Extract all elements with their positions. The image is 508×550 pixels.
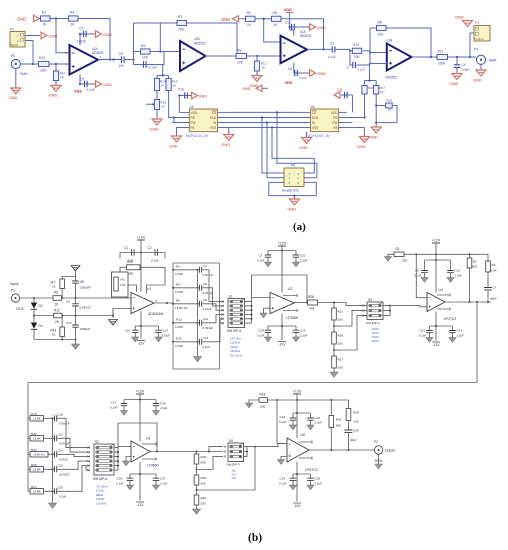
svg-text:5to 10Hz: 5to 10Hz	[230, 353, 243, 357]
wire clamp bottom line	[34, 339, 76, 341]
ground flag at C1	[310, 24, 327, 30]
svg-text:390: 390	[128, 272, 133, 276]
ground below C13	[155, 337, 163, 342]
svg-text:2.2uF: 2.2uF	[455, 274, 463, 278]
capacitor C30 40pF bottom	[345, 429, 359, 451]
svg-text:C9: C9	[66, 300, 70, 304]
svg-text:C28: C28	[117, 477, 123, 481]
wire U5 pin3 ground	[277, 457, 287, 465]
capacitor C9 0.047uF	[66, 298, 91, 316]
capacitor C18 0.001uF	[52, 413, 70, 426]
svg-text:0.1uF: 0.1uF	[203, 345, 211, 349]
svg-text:R4: R4	[70, 11, 74, 15]
power -12V under U4	[432, 342, 440, 347]
wire input stage1	[20, 63, 69, 65]
capacitor C30 0.1uF	[52, 486, 67, 499]
svg-text:P4: P4	[11, 54, 15, 58]
svg-text:PB: PB	[191, 116, 195, 120]
svg-text:R2: R2	[247, 11, 251, 15]
svg-text:GND: GND	[317, 71, 326, 76]
resistor R25 13.8K	[28, 463, 55, 472]
ground below C10	[131, 337, 139, 342]
svg-text:C13: C13	[420, 329, 426, 333]
svg-text:C3: C3	[259, 254, 263, 258]
op-amp U4 OP27CZ	[427, 288, 456, 321]
wire U5 output	[309, 449, 374, 451]
resistor R2 1K	[246, 11, 256, 27]
svg-text:-12V: -12V	[278, 343, 286, 347]
earth ground above C6	[71, 266, 80, 277]
svg-text:RCA: RCA	[375, 459, 383, 463]
svg-text:0.001uF: 0.001uF	[59, 422, 70, 426]
resistor R16 1K	[362, 86, 374, 95]
svg-text:SMA: SMA	[489, 59, 497, 63]
svg-text:100nF: 100nF	[77, 40, 86, 44]
resistor R5 7.5K trim	[112, 272, 129, 297]
svg-text:U6: U6	[311, 105, 315, 109]
ground below R17	[330, 372, 339, 378]
resistor R3 13.8K	[172, 265, 199, 276]
node feedback-junction stage1	[55, 17, 111, 60]
wire ladder1 junction bus	[197, 270, 199, 357]
svg-text:0.1uF: 0.1uF	[358, 68, 366, 72]
svg-text:0.1uF: 0.1uF	[116, 482, 124, 486]
resistor R20a 200	[194, 470, 206, 491]
capacitor C11 0.033uF	[197, 317, 214, 330]
svg-text:RCA: RCA	[17, 307, 25, 311]
svg-text:0.1uF: 0.1uF	[87, 88, 95, 92]
svg-text:GND: GND	[299, 146, 308, 150]
ground below C17	[120, 411, 128, 416]
svg-text:200: 200	[260, 405, 265, 409]
svg-text:C6: C6	[80, 280, 84, 284]
svg-text:820: 820	[336, 424, 341, 428]
svg-text:Input: Input	[11, 43, 18, 47]
svg-text:LF356N: LF356N	[286, 316, 299, 320]
resistor R18 200	[259, 393, 349, 409]
resistor R22 13.8K	[28, 432, 55, 441]
ground below U5 left	[169, 128, 182, 149]
capacitor C7 40pF	[484, 286, 497, 303]
capacitor C28 0.1uF under U3	[116, 474, 133, 486]
svg-text:VSS: VSS	[312, 126, 318, 130]
resistor R12 2K	[54, 309, 63, 325]
wire tap R26-R20 to S4	[197, 457, 224, 470]
svg-text:C21: C21	[58, 433, 64, 437]
capacitor C9 0.01uF	[197, 298, 212, 311]
ground below R17 R19	[369, 123, 381, 140]
resistor R17 100	[332, 350, 344, 372]
svg-text:u2B: u2B	[194, 37, 200, 41]
resistor R8 10K feedback stage4	[377, 21, 387, 37]
wire digital pot bus	[226, 111, 365, 177]
svg-text:2.2uF: 2.2uF	[457, 334, 465, 338]
svg-text:CS: CS	[212, 111, 216, 115]
svg-text:U5: U5	[301, 433, 305, 437]
schematic part (b)	[10, 236, 497, 515]
svg-text:2.2uF: 2.2uF	[160, 406, 168, 410]
svg-text:R13: R13	[353, 43, 359, 47]
op-amp U3 LF356N	[131, 437, 159, 468]
svg-text:SW DIP-3: SW DIP-3	[366, 321, 380, 325]
ground below C3	[264, 262, 272, 267]
svg-text:+12V: +12V	[137, 236, 146, 240]
svg-text:R12: R12	[54, 309, 60, 313]
ground flag at C10	[192, 92, 208, 98]
svg-text:u1B: u1B	[387, 39, 393, 43]
svg-text:GND: GND	[288, 208, 297, 212]
power +12V at U3	[124, 390, 156, 442]
capacitor C37 2.2uF under U3	[153, 474, 168, 486]
ground flag GND at P2	[41, 32, 58, 38]
resistor R21 820 bottom	[329, 400, 342, 450]
wire U2 negative supply	[268, 314, 296, 341]
resistor R24 390 gain	[127, 260, 141, 276]
capacitor C13 2.2uF under U2	[293, 326, 308, 338]
resistor R7 10K feedback	[177, 15, 187, 32]
svg-text:2.2uF: 2.2uF	[315, 482, 323, 486]
resistor R1 200 feedback	[394, 247, 488, 263]
ground below C5	[421, 278, 429, 283]
svg-text:R4: R4	[176, 283, 180, 287]
svg-text:GND: GND	[221, 17, 230, 22]
svg-text:C30: C30	[353, 429, 359, 433]
svg-text:R17: R17	[338, 358, 344, 362]
svg-text:C16: C16	[315, 416, 321, 420]
resistor R1	[41, 11, 51, 27]
svg-text:MCP41010_1N: MCP41010_1N	[186, 134, 208, 138]
resistor R28 499	[308, 295, 362, 311]
ground below P3	[473, 64, 486, 82]
resistor R17 1K	[374, 86, 386, 95]
svg-text:0.1uF: 0.1uF	[419, 334, 427, 338]
resistor R4 4.3K	[486, 254, 497, 287]
svg-text:200: 200	[402, 259, 407, 263]
wire U1 pin3 to ground	[109, 309, 132, 326]
wire input main line	[20, 297, 131, 299]
svg-text:VEE: VEE	[285, 80, 293, 85]
ground below U6	[299, 132, 312, 150]
capacitor C9 0.1uF	[79, 78, 95, 93]
svg-text:R26: R26	[201, 455, 207, 459]
svg-text:R5: R5	[141, 44, 145, 48]
resistor R13 10K series stage4	[352, 43, 362, 59]
wire U4 output	[445, 301, 491, 303]
svg-text:D1: D1	[39, 304, 43, 308]
svg-text:GND: GND	[450, 81, 459, 86]
svg-text:C4: C4	[203, 264, 207, 268]
svg-text:R3: R3	[176, 265, 180, 269]
capacitor C1 0.1uF	[285, 21, 309, 31]
svg-text:GND: GND	[49, 34, 58, 39]
wire U4 negative supply	[430, 312, 453, 341]
svg-text:S4: S4	[229, 439, 233, 443]
svg-text:1K: 1K	[380, 90, 384, 94]
wire stage4 RC input	[349, 28, 387, 65]
wire U5 inverting input	[277, 400, 287, 444]
caption (a)	[293, 221, 306, 233]
svg-text:1K: 1K	[52, 285, 56, 289]
svg-text:24k: 24k	[232, 476, 237, 480]
ground below C35	[152, 411, 160, 416]
svg-text:C14: C14	[457, 329, 463, 333]
wire stage2 output	[206, 55, 259, 57]
svg-text:C2: C2	[79, 27, 83, 31]
svg-text:R6: R6	[176, 299, 180, 303]
svg-text:GND: GND	[357, 145, 366, 149]
svg-text:C37: C37	[160, 477, 166, 481]
svg-text:GND: GND	[455, 15, 464, 20]
svg-text:100: 100	[338, 366, 343, 370]
svg-text:0.01uF: 0.01uF	[203, 307, 212, 311]
svg-text:0.001uF: 0.001uF	[203, 273, 214, 277]
capacitor C26 0.033uF	[52, 464, 70, 477]
svg-text:13.8K: 13.8K	[175, 344, 184, 348]
svg-text:GND: GND	[242, 87, 251, 91]
wire U1 negative supply	[135, 311, 159, 339]
svg-text:SI: SI	[312, 121, 315, 125]
svg-text:1K: 1K	[273, 23, 278, 27]
ground below C18	[307, 485, 315, 490]
svg-text:(a): (a)	[293, 221, 306, 233]
svg-text:S1: S1	[229, 295, 233, 299]
svg-text:-12V: -12V	[293, 504, 301, 508]
power +12V at U4	[425, 239, 451, 293]
resistor R19 13.8K	[28, 412, 55, 421]
ground right of U6	[347, 128, 370, 150]
ground below R18	[150, 119, 163, 132]
power -12V under U2	[278, 342, 286, 347]
capacitor C19 0.1uF at U5	[279, 413, 296, 425]
svg-text:GND: GND	[473, 78, 482, 83]
wire stage4 output	[412, 56, 477, 58]
svg-text:AD620AN: AD620AN	[148, 312, 164, 316]
wire stage2 bias	[146, 65, 182, 123]
svg-text:4.3K: 4.3K	[491, 269, 497, 273]
svg-text:Header 5X2: Header 5X2	[282, 189, 299, 193]
ground below C16	[307, 425, 315, 430]
svg-text:Output: Output	[385, 449, 395, 453]
svg-text:P2: P2	[374, 440, 378, 444]
svg-text:VDD: VDD	[284, 7, 293, 12]
wire S1 output bus	[245, 298, 271, 324]
capacitor C18 2.2uF under U5	[307, 474, 322, 486]
svg-text:SW DIP-3: SW DIP-3	[227, 463, 241, 467]
power VEE stage1	[74, 89, 82, 94]
ground flag stage3 feedback	[221, 16, 239, 22]
svg-text:R16: R16	[338, 334, 344, 338]
capacitor C2 0.1uF	[148, 246, 160, 263]
wire tap R16-R17 to S3	[334, 316, 361, 350]
op-amp U2 LF356N	[270, 287, 299, 320]
ground flag at C2	[96, 31, 113, 37]
DIP switch S3 SW DIP-3	[361, 298, 383, 325]
svg-text:+12V: +12V	[293, 390, 302, 394]
svg-text:C35: C35	[160, 402, 166, 406]
resistor R11	[39, 56, 50, 73]
wire U2 pin3 ground	[260, 308, 270, 318]
svg-text:40pF: 40pF	[350, 438, 357, 442]
svg-text:NE5532: NE5532	[92, 51, 104, 55]
svg-text:R24: R24	[127, 260, 133, 264]
resistor R5 10K	[141, 44, 151, 60]
capacitor C5 0.1uF	[144, 61, 157, 69]
svg-text:R1: R1	[42, 11, 46, 15]
header P5 Header 5X2	[282, 164, 304, 193]
capacitor C2 100nF	[77, 27, 95, 44]
svg-text:R8: R8	[378, 21, 382, 25]
capacitor C14 2.2uF under U4	[449, 326, 464, 338]
svg-text:100K: 100K	[438, 62, 446, 66]
capacitor C13 0.33uF under U1	[155, 326, 170, 338]
svg-text:0.1uF: 0.1uF	[257, 334, 265, 338]
svg-text:0.1uF: 0.1uF	[328, 55, 336, 59]
capacitor C29 0.1uF under U5	[279, 474, 296, 486]
svg-text:R6: R6	[54, 291, 58, 295]
wire clamp mid line	[34, 315, 113, 317]
resistor R15 1K	[166, 78, 178, 90]
svg-text:0.033uF: 0.033uF	[59, 473, 70, 477]
svg-text:0.033uF: 0.033uF	[203, 326, 214, 330]
ground flag at P1	[455, 15, 473, 27]
svg-text:C2: C2	[148, 246, 152, 250]
ground below header P5	[288, 196, 300, 212]
svg-text:-12V: -12V	[137, 342, 145, 346]
ground flag at C9	[96, 81, 113, 87]
svg-text:GND: GND	[199, 95, 208, 99]
svg-text:100: 100	[338, 318, 343, 322]
wire U3 pin3 ground	[122, 457, 131, 467]
svg-text:C14: C14	[259, 329, 265, 333]
ground below C19	[289, 425, 297, 430]
svg-text:D2: D2	[39, 324, 43, 328]
svg-text:Output: Output	[475, 37, 484, 41]
svg-text:C26: C26	[58, 464, 64, 468]
svg-text:C10: C10	[125, 329, 131, 333]
svg-text:+12V: +12V	[432, 239, 441, 243]
schematic part (a)	[9, 7, 498, 212]
svg-text:13.8K: 13.8K	[175, 272, 184, 276]
svg-text:13k5Hz: 13k5Hz	[96, 501, 107, 505]
svg-text:R20: R20	[201, 476, 207, 480]
svg-text:C30: C30	[58, 486, 64, 490]
capacitor C4 100pF	[454, 57, 470, 74]
capacitor C13 0.1uF under U4	[419, 326, 433, 338]
DIP switch S1 SW DIP-6	[227, 295, 245, 334]
IC U5 MCP41010 left	[172, 105, 226, 138]
svg-text:7.5K: 7.5K	[120, 283, 126, 287]
svg-text:C3: C3	[330, 42, 334, 46]
svg-text:SW DIP-6: SW DIP-6	[93, 477, 107, 481]
svg-text:2.2uF: 2.2uF	[300, 334, 308, 338]
resistor R9 10K series	[236, 49, 281, 65]
svg-text:GND: GND	[150, 127, 159, 132]
svg-text:P1: P1	[11, 289, 15, 293]
svg-text:C12: C12	[66, 321, 72, 325]
capacitor C1 1uF	[120, 246, 165, 263]
svg-text:U5: U5	[190, 105, 194, 109]
svg-text:R6: R6	[273, 11, 277, 15]
svg-text:NE5532: NE5532	[386, 76, 398, 80]
resistor R14 1K	[154, 78, 166, 90]
svg-text:R15: R15	[176, 337, 182, 341]
svg-text:R1: R1	[396, 247, 400, 251]
svg-text:C17: C17	[111, 401, 117, 405]
wire stage3 feedback	[239, 18, 325, 51]
op-amp U1A NE5532 stage3	[281, 30, 312, 63]
capacitor C6 1000pF	[72, 277, 90, 299]
svg-text:0.1uF: 0.1uF	[151, 259, 159, 263]
svg-text:13.8K: 13.8K	[33, 417, 41, 421]
resistor R21 100K	[437, 50, 448, 66]
op-amp U2B NE5532 stage2	[180, 37, 206, 71]
svg-text:PW: PW	[191, 121, 196, 125]
wire stage3 lower decoupling	[294, 63, 309, 73]
svg-text:0.1uF: 0.1uF	[299, 76, 307, 80]
svg-text:P2: P2	[10, 28, 14, 32]
capacitor C3 0.1uF at U2	[257, 251, 271, 263]
svg-text:U4: U4	[439, 288, 443, 292]
capacitor C12 1000pF	[66, 316, 90, 340]
svg-text:R11: R11	[338, 310, 344, 314]
wire U1 output	[154, 302, 173, 304]
svg-text:P5: P5	[291, 164, 295, 168]
svg-text:-12V: -12V	[432, 343, 440, 347]
svg-text:R7: R7	[178, 15, 182, 19]
op-amp U1B NE5532 stage4	[386, 39, 412, 80]
resistor R11 100	[332, 303, 344, 327]
ground below R12	[250, 76, 263, 89]
frequency list under S2	[96, 485, 109, 506]
svg-text:2.2uF: 2.2uF	[315, 421, 323, 425]
resistor R15 13.8K	[172, 337, 199, 348]
ground at R1	[384, 254, 394, 261]
svg-text:C18: C18	[58, 413, 64, 417]
svg-text:GND: GND	[317, 25, 326, 30]
wire opamp1 power stubs	[79, 34, 81, 84]
op-amp U1 AD620AN	[131, 287, 164, 316]
capacitor C35 2.2uF at U3	[153, 400, 168, 411]
svg-text:0.1uF: 0.1uF	[257, 259, 265, 263]
ground below P4	[9, 69, 21, 100]
svg-text:10K: 10K	[40, 69, 47, 73]
ground below R29	[192, 509, 201, 515]
capacitor C10 2.2uF at U4	[447, 260, 462, 278]
svg-text:C1: C1	[124, 246, 128, 250]
ground below R10	[49, 86, 62, 98]
svg-text:C4: C4	[462, 63, 466, 67]
svg-text:0.1uF: 0.1uF	[279, 420, 287, 424]
svg-text:C10: C10	[455, 269, 461, 273]
svg-text:C29: C29	[280, 477, 286, 481]
svg-text:R21: R21	[438, 50, 444, 54]
capacitor C3 0.1uF series	[328, 42, 350, 60]
svg-text:13.8K: 13.8K	[33, 490, 41, 494]
capacitor C14 0.1uF under U2	[257, 326, 271, 338]
svg-text:VEE: VEE	[74, 89, 82, 94]
ground at R18	[245, 400, 259, 408]
frequency list under S4	[232, 469, 237, 481]
resistor R26 590	[194, 452, 206, 471]
wire stage4 pin3 bias	[349, 64, 387, 124]
DIP switch S2 SW DIP-6	[93, 440, 114, 481]
capacitor C10 0.1uF under U1	[125, 326, 139, 337]
capacitor C16 0.1uF	[197, 336, 211, 349]
svg-text:1K: 1K	[247, 23, 252, 27]
svg-text:GND: GND	[49, 93, 58, 98]
resistor R23 13.8K-1%	[28, 448, 55, 457]
ground below C10 U4	[447, 278, 455, 283]
